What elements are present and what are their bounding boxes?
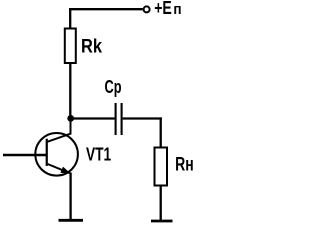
resistor Rн bbox=[155, 148, 168, 186]
wire: Rk bottom to collector node bbox=[69, 63, 71, 117]
resistor Rk bbox=[65, 29, 76, 64]
capacitor Cp plate right bbox=[121, 103, 123, 135]
ground: left (emitter) bbox=[59, 219, 84, 222]
transistor VT1 collector lead bbox=[48, 119, 71, 142]
wire: node to capacitor Cp bbox=[71, 117, 115, 119]
svg-text:Cp: Cp bbox=[105, 77, 122, 97]
terminal +Еп (open circle) bbox=[144, 6, 150, 12]
transistor VT1 body circle bbox=[35, 133, 78, 176]
capacitor Cp plate left bbox=[115, 103, 117, 135]
wire: corner down to Rн top bbox=[160, 117, 162, 147]
svg-text:п: п bbox=[173, 1, 181, 18]
svg-text:+Е: +Е bbox=[154, 0, 172, 18]
wire: emitter down to ground bbox=[69, 173, 71, 221]
transistor VT1 base bar bbox=[46, 139, 48, 166]
wire: base lead bbox=[3, 154, 46, 156]
ground: right (load) bbox=[151, 220, 173, 223]
wire: Cp to right corner bbox=[123, 117, 162, 119]
wire: rail down to Rk top bbox=[69, 8, 71, 28]
wire: top rail from Rk to +Еп terminal bbox=[69, 8, 143, 10]
svg-text:Rk: Rk bbox=[81, 37, 102, 58]
transistor VT1 emitter arrow bbox=[60, 167, 70, 174]
svg-text:Rн: Rн bbox=[175, 155, 194, 176]
svg-text:VT1: VT1 bbox=[86, 145, 111, 165]
node: collector junction dot bbox=[67, 115, 74, 122]
wire: Rн bottom to ground bbox=[160, 186, 162, 220]
transistor VT1 emitter lead bbox=[48, 164, 71, 173]
